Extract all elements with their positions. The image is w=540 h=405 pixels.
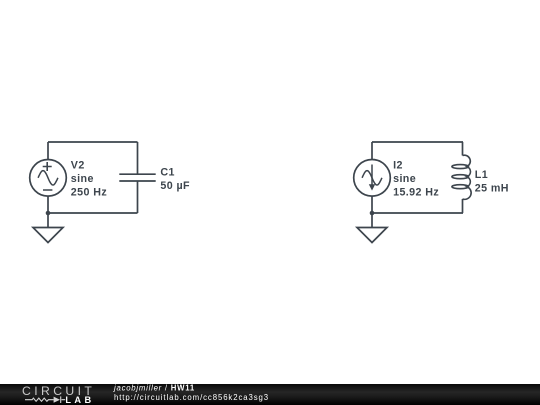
svg-text:15.92 Hz: 15.92 Hz: [393, 186, 439, 198]
svg-text:sine: sine: [71, 173, 94, 185]
svg-text:250 Hz: 250 Hz: [71, 186, 107, 198]
svg-text:sine: sine: [393, 173, 416, 185]
svg-text:25 mH: 25 mH: [475, 183, 509, 195]
svg-text:V2: V2: [71, 159, 85, 171]
svg-text:I2: I2: [393, 159, 403, 171]
svg-text:http://circuitlab.com/cc856k2c: http://circuitlab.com/cc856k2ca3sg3: [114, 393, 269, 402]
svg-text:jacobjmiller / HW11: jacobjmiller / HW11: [113, 384, 195, 392]
svg-text:C1: C1: [160, 166, 174, 178]
svg-text:LAB: LAB: [65, 395, 94, 405]
svg-text:50 µF: 50 µF: [160, 180, 190, 192]
svg-text:L1: L1: [475, 169, 488, 181]
